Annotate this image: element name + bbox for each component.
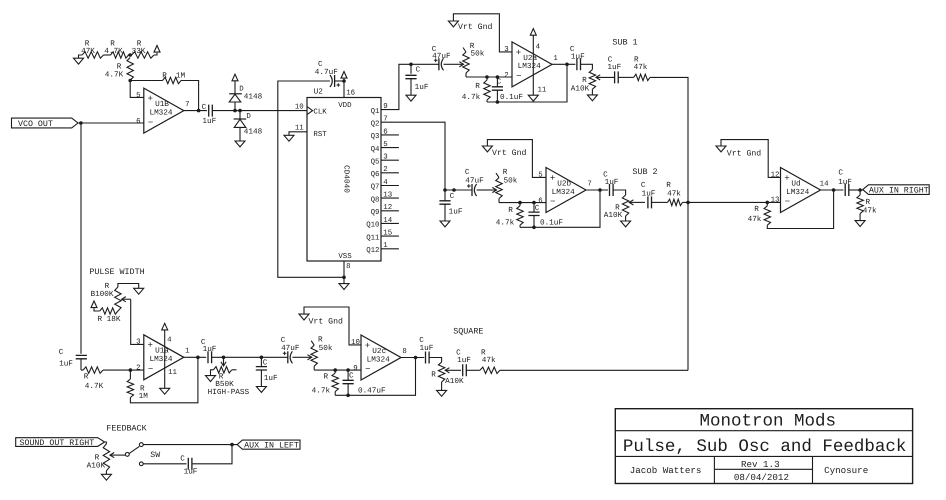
svg-text:R: R	[105, 282, 110, 291]
svg-text:4: 4	[383, 179, 388, 187]
wire U2c output	[401, 357, 424, 359]
node R4.7k top (square)	[333, 368, 337, 372]
svg-text:LM324: LM324	[552, 188, 575, 197]
svg-text:5: 5	[136, 92, 140, 100]
svg-text:R: R	[219, 372, 224, 381]
svg-text:Rev 1.3: Rev 1.3	[741, 459, 780, 470]
ground (feedback pot)	[101, 474, 111, 480]
capacitor C 1uF (SUB2 mix)	[641, 181, 656, 208]
node diode D1	[233, 109, 237, 113]
capacitor C 1uF (pulse width input)	[59, 123, 87, 370]
resistor R 4.7k (square fb)	[312, 370, 339, 395]
node VDD	[342, 79, 346, 83]
resistor R 47k (U2d fb)	[748, 190, 834, 229]
op-amp U1a	[144, 335, 184, 380]
svg-text:+: +	[550, 173, 555, 183]
pin 1 Q12 stub	[366, 242, 399, 255]
svg-text:C: C	[281, 336, 286, 345]
node U1a output	[196, 356, 200, 360]
svg-text:11: 11	[295, 125, 304, 133]
svg-text:PULSE WIDTH: PULSE WIDTH	[89, 267, 144, 277]
svg-text:R: R	[318, 336, 323, 345]
capacitor C 47uF (square)	[261, 336, 300, 363]
potentiometer R 50k (SUB1)	[448, 42, 485, 77]
svg-text:4.7k: 4.7k	[462, 93, 481, 102]
svg-text:10: 10	[295, 103, 304, 111]
resistor R 1M (hysteresis)	[130, 71, 198, 110]
resistor R 47k (SUB1 mix)	[618, 55, 650, 80]
svg-text:47k: 47k	[748, 215, 762, 224]
op-amp U2a	[512, 42, 552, 87]
potentiometer R B100K (pulse width)	[90, 282, 138, 311]
capacitor C 1uF (U1a out)	[201, 338, 217, 363]
svg-text:R: R	[323, 372, 328, 381]
svg-text:4: 4	[536, 44, 541, 52]
ground (output load)	[855, 221, 865, 227]
power VCC arrow (clamp)	[232, 74, 238, 81]
svg-text:R: R	[754, 205, 759, 214]
pin 6 Q3 stub	[371, 128, 399, 141]
ground (RST)	[284, 135, 294, 141]
svg-text:C: C	[603, 170, 608, 179]
svg-text:−: −	[148, 365, 153, 375]
flag AUX IN RIGHT	[863, 185, 929, 196]
node fb-cap junction (SUB2)	[532, 226, 536, 230]
potentiometer R 50k (SUB2)	[481, 168, 518, 203]
svg-text:AUX IN LEFT: AUX IN LEFT	[244, 441, 299, 450]
title block frame	[615, 409, 912, 484]
svg-text:3: 3	[383, 154, 387, 162]
capacitor C 1uF (SUB1 shunt)	[405, 64, 428, 95]
svg-text:A10K: A10K	[604, 211, 623, 220]
svg-text:U1B: U1B	[155, 100, 169, 109]
pin 14 Q10 stub	[366, 217, 399, 230]
pin 4 VCC (U2a)	[530, 29, 540, 65]
ground (pulse width pot)	[134, 288, 144, 294]
svg-text:+: +	[784, 173, 789, 183]
svg-text:HIGH-PASS: HIGH-PASS	[208, 388, 250, 397]
wire U2b output	[586, 189, 608, 191]
wire VCO OUT to U1B pin 6	[78, 122, 144, 124]
svg-text:C: C	[180, 455, 185, 464]
node diode D2	[238, 109, 242, 113]
svg-text:−: −	[516, 72, 521, 82]
svg-text:R 18K: R 18K	[97, 315, 120, 324]
svg-text:R: R	[615, 203, 620, 212]
wire U2a output	[552, 63, 575, 65]
svg-text:U2b: U2b	[557, 179, 571, 188]
pin 9 Q1 wire	[371, 64, 411, 116]
svg-text:11: 11	[537, 87, 546, 95]
svg-text:C: C	[641, 181, 646, 190]
wire decoupling to VSS rail	[278, 81, 344, 277]
node U2d pin 13	[766, 201, 770, 205]
Vrt Gnd (U2b pin 5)	[482, 140, 546, 178]
pin 11 ground (U1a)	[160, 357, 178, 394]
wire U2a feedback loop	[487, 64, 567, 102]
op-amp U2b	[546, 168, 586, 213]
diode D 4148 (clamp to VCC)	[229, 81, 262, 111]
svg-text:LM324: LM324	[149, 108, 172, 117]
wire U1B output	[184, 110, 207, 112]
svg-text:VSS: VSS	[338, 253, 352, 261]
node shunt cap (square in)	[260, 356, 264, 360]
svg-text:47uF: 47uF	[281, 344, 300, 353]
flag SOUND OUT RIGHT	[16, 438, 105, 448]
svg-text:1uF: 1uF	[571, 53, 585, 62]
node U2b output	[598, 188, 602, 192]
svg-text:47k: 47k	[667, 189, 681, 198]
capacitor C 47uF (SUB2)	[445, 168, 484, 196]
node R4.7k top (SUB1)	[485, 75, 489, 79]
svg-text:C: C	[838, 168, 843, 177]
svg-text:R: R	[475, 82, 480, 91]
svg-text:4148: 4148	[244, 127, 263, 136]
pin 4 VCC (U1a)	[162, 323, 172, 357]
svg-text:Pulse, Sub Osc and Feedback: Pulse, Sub Osc and Feedback	[623, 437, 907, 457]
svg-text:D: D	[246, 113, 251, 121]
potentiometer R A10K (SUB2 level)	[604, 195, 645, 221]
ground (SUB1 pot)	[587, 95, 597, 101]
svg-text:1uF: 1uF	[838, 178, 852, 187]
wire U2c feedback loop	[335, 358, 415, 396]
svg-text:50k: 50k	[503, 177, 517, 186]
resistor R 47k (SUB2 mix)	[652, 181, 689, 205]
svg-text:13: 13	[771, 197, 780, 205]
resistor R 1M (U1a fb)	[127, 357, 198, 403]
svg-text:Q10: Q10	[366, 222, 379, 230]
resistor R 4.7K (U1a input)	[81, 367, 144, 391]
svg-text:C: C	[59, 348, 64, 357]
svg-text:Q5: Q5	[371, 158, 380, 166]
pin 16 VDD wire	[338, 81, 355, 110]
svg-text:+: +	[365, 341, 370, 351]
svg-text:1M: 1M	[176, 71, 186, 80]
svg-text:R: R	[666, 181, 671, 190]
node U1B output	[197, 109, 201, 113]
wire U2b pin 6 rail	[499, 202, 546, 204]
capacitor C 1uF (U2d out)	[838, 168, 852, 196]
svg-text:4.7K: 4.7K	[104, 47, 123, 56]
node fb-cap junction (SUB1)	[496, 100, 500, 104]
potentiometer R B50K (HIGH-PASS)	[208, 357, 250, 397]
svg-text:12: 12	[771, 171, 780, 179]
svg-text:8: 8	[402, 348, 406, 356]
ground (square shunt)	[256, 387, 266, 393]
svg-text:Vrt Gnd: Vrt Gnd	[492, 149, 526, 158]
node VSS	[342, 276, 346, 280]
op-amp U2d	[781, 168, 821, 213]
svg-text:CD4040: CD4040	[342, 165, 351, 193]
pin 3 Q5 stub	[371, 154, 399, 167]
node U2d output	[832, 188, 836, 192]
ground (VSS)	[339, 284, 349, 290]
svg-text:4.7K: 4.7K	[105, 71, 124, 80]
ground (bias divider)	[79, 55, 83, 58]
svg-text:Q4: Q4	[371, 146, 380, 154]
Vrt Gnd (U2c pin 10)	[299, 307, 361, 345]
svg-text:VDD: VDD	[338, 102, 352, 110]
node high-pass	[222, 356, 226, 360]
svg-text:C: C	[497, 77, 502, 86]
svg-text:C: C	[419, 336, 424, 345]
svg-text:R: R	[431, 371, 436, 380]
svg-text:1: 1	[383, 242, 388, 250]
svg-text:C: C	[465, 168, 470, 177]
svg-text:50k: 50k	[319, 344, 333, 353]
svg-text:4.7uF: 4.7uF	[315, 68, 338, 77]
svg-text:R: R	[508, 206, 513, 215]
pin 12 Q9 stub	[371, 204, 399, 217]
svg-text:Q7: Q7	[371, 184, 380, 192]
svg-text:D: D	[239, 86, 244, 94]
svg-text:50k: 50k	[470, 50, 484, 59]
svg-text:5: 5	[538, 171, 542, 179]
node summing bus	[686, 201, 690, 205]
resistor R 47k (output load)	[857, 190, 877, 221]
svg-text:Q2: Q2	[371, 121, 380, 129]
op-amp U1B	[144, 88, 184, 133]
svg-text:4.7K: 4.7K	[85, 382, 104, 391]
wire summing bus to U2d pin 13	[688, 201, 781, 203]
pin 11 RST wire	[289, 125, 327, 140]
svg-text:3: 3	[136, 339, 140, 347]
svg-text:LM324: LM324	[367, 355, 390, 364]
svg-text:13: 13	[383, 192, 392, 200]
pin 5 Q4 stub	[371, 141, 399, 154]
svg-text:A10K: A10K	[87, 461, 106, 470]
node SUB2 input	[443, 188, 447, 192]
svg-text:47uF: 47uF	[465, 177, 484, 186]
wire to AUX IN RIGHT	[849, 189, 863, 191]
pin 4 Q7 stub	[371, 179, 399, 192]
Vrt Gnd (U2a pin 3)	[448, 14, 512, 52]
node bias junction	[128, 53, 132, 57]
svg-text:SW: SW	[150, 451, 160, 460]
svg-text:LM324: LM324	[786, 188, 809, 197]
svg-text:10: 10	[351, 339, 360, 347]
pin 7 Q2 wire	[371, 116, 445, 190]
svg-text:R: R	[117, 63, 122, 72]
wire C to AUX IN LEFT	[192, 445, 232, 464]
ground (SUB2 pot)	[621, 221, 631, 227]
wire cap to CLK	[212, 110, 307, 112]
svg-text:0.1uF: 0.1uF	[500, 93, 523, 102]
svg-text:6: 6	[136, 118, 140, 126]
svg-text:Q9: Q9	[371, 209, 380, 217]
power VCC arrow (R18K)	[91, 301, 97, 308]
node fb-cap junction (square)	[346, 394, 350, 398]
ground (square pot)	[437, 390, 447, 396]
svg-text:1uF: 1uF	[607, 63, 621, 72]
svg-text:15: 15	[383, 230, 392, 238]
svg-text:4148: 4148	[244, 93, 263, 102]
capacitor C 1uF (SUB1 out)	[570, 45, 585, 70]
svg-text:−: −	[785, 197, 790, 207]
svg-text:LM324: LM324	[149, 355, 172, 364]
svg-text:Q1: Q1	[371, 108, 380, 116]
pin 8 VSS wire	[338, 253, 352, 277]
svg-text:CLK: CLK	[313, 109, 327, 117]
ground (clamp)	[235, 141, 245, 147]
wire to pot (SUB2)	[613, 190, 626, 195]
capacitor C 1uF (SUB1 mix)	[607, 55, 621, 83]
svg-text:C: C	[202, 103, 207, 112]
power VCC arrow (VDD)	[341, 72, 347, 79]
svg-text:U2c: U2c	[372, 347, 386, 356]
svg-text:C: C	[263, 359, 268, 368]
svg-text:R: R	[84, 372, 89, 381]
svg-text:1: 1	[185, 348, 190, 356]
svg-text:Vrt Gnd: Vrt Gnd	[309, 318, 343, 327]
pin 15 Q11 stub	[366, 230, 399, 243]
svg-text:−: −	[148, 118, 153, 128]
resistor R 4.7k (SUB2 fb)	[496, 203, 523, 228]
svg-text:11: 11	[168, 369, 177, 377]
capacitor C 0.1uF (SUB2 fb)	[528, 203, 563, 228]
svg-text:Q6: Q6	[371, 171, 380, 179]
svg-text:B50K: B50K	[215, 380, 234, 389]
svg-text:+: +	[147, 341, 152, 351]
capacitor C 1uF (SUB2 shunt)	[439, 190, 462, 221]
svg-text:A10K: A10K	[571, 84, 590, 93]
svg-text:R: R	[162, 71, 167, 80]
svg-text:1: 1	[553, 55, 558, 63]
svg-text:Jacob Watters: Jacob Watters	[630, 465, 702, 476]
svg-text:47k: 47k	[863, 206, 877, 215]
svg-text:Q3: Q3	[371, 133, 380, 141]
svg-text:8: 8	[346, 263, 350, 271]
node C0.1uF top (SUB2)	[532, 201, 536, 205]
svg-text:1uF: 1uF	[605, 178, 619, 187]
wire switch to C 1uF	[143, 463, 186, 465]
svg-text:VCO OUT: VCO OUT	[18, 120, 53, 129]
svg-text:AUX IN RIGHT: AUX IN RIGHT	[869, 187, 929, 196]
svg-text:1uF: 1uF	[184, 468, 198, 477]
ground (high-pass pot)	[206, 376, 216, 382]
wire U2d output	[821, 189, 844, 191]
svg-text:7: 7	[383, 116, 387, 124]
svg-text:Monotron Mods: Monotron Mods	[700, 412, 837, 432]
svg-text:08/04/2012: 08/04/2012	[734, 472, 789, 483]
svg-text:Ud: Ud	[791, 179, 800, 188]
svg-text:1uF: 1uF	[202, 117, 216, 126]
svg-text:B100K: B100K	[90, 290, 113, 299]
wire U1a output	[184, 356, 206, 358]
svg-text:Cynosure: Cynosure	[824, 465, 868, 476]
svg-text:−: −	[550, 197, 555, 207]
svg-text:9: 9	[353, 365, 357, 373]
potentiometer R A10K (SUB1 level)	[571, 70, 615, 95]
svg-text:1uF: 1uF	[449, 207, 463, 216]
resistor R 4.7k (SUB1 fb)	[462, 77, 490, 102]
svg-text:R: R	[634, 55, 639, 64]
node U1a pin 2	[129, 368, 133, 372]
svg-text:R: R	[582, 76, 587, 85]
svg-text:14: 14	[383, 217, 392, 225]
svg-text:6: 6	[383, 128, 387, 136]
svg-text:U2a: U2a	[523, 54, 537, 63]
flag VCO OUT	[12, 118, 79, 129]
capacitor C 1uF (SUB2 out)	[603, 170, 619, 196]
svg-text:16: 16	[346, 89, 355, 97]
svg-text:SQUARE: SQUARE	[453, 326, 483, 336]
svg-text:SUB 1: SUB 1	[612, 38, 637, 48]
svg-text:6: 6	[538, 197, 542, 205]
node U2a output	[565, 63, 569, 67]
node SUB1 input	[409, 63, 413, 67]
svg-text:SOUND OUT RIGHT: SOUND OUT RIGHT	[20, 439, 95, 448]
node pin5 bias	[128, 79, 132, 83]
potentiometer R A10K (feedback)	[87, 442, 126, 474]
svg-text:1uF: 1uF	[419, 344, 433, 353]
svg-text:Vrt Gnd: Vrt Gnd	[727, 149, 761, 158]
svg-text:4: 4	[167, 337, 172, 345]
svg-text:C: C	[608, 55, 613, 64]
svg-text:9: 9	[383, 103, 387, 111]
svg-text:7: 7	[185, 101, 189, 109]
diode D 4148 (clamp to ground)	[234, 111, 263, 141]
svg-text:12: 12	[383, 204, 392, 212]
svg-text:+: +	[516, 48, 521, 58]
node U2c output	[414, 356, 418, 360]
svg-text:5: 5	[383, 141, 387, 149]
power VCC arrow (bias)	[154, 46, 160, 53]
svg-text:Q8: Q8	[371, 196, 380, 204]
wire to pot (SUB1)	[581, 64, 593, 69]
svg-text:R: R	[503, 168, 508, 177]
svg-text:2: 2	[136, 365, 140, 373]
wire to high-pass	[212, 356, 262, 358]
svg-text:1M: 1M	[139, 392, 149, 401]
svg-text:R: R	[866, 198, 871, 207]
svg-text:3: 3	[504, 46, 508, 54]
capacitor C 0.1uF (SUB1 fb)	[492, 77, 524, 102]
svg-text:1uF: 1uF	[203, 345, 217, 354]
resistor R 47K	[81, 40, 110, 59]
wire switch to AUX IN LEFT	[143, 444, 237, 446]
IC U2 CD4040 body	[307, 88, 381, 262]
node C0.47uF top (square)	[346, 368, 350, 372]
Vrt Gnd (U2d pin 12)	[716, 140, 781, 178]
svg-text:2: 2	[504, 72, 508, 80]
potentiometer R 50k (square)	[296, 336, 333, 370]
svg-text:47k: 47k	[634, 63, 648, 72]
pin 11 ground (U2a)	[528, 64, 547, 101]
capacitor C 1uF (feedback)	[180, 455, 198, 477]
node AUX IN LEFT	[230, 443, 234, 447]
pin 10 CLK	[295, 103, 327, 116]
svg-text:4.7k: 4.7k	[496, 219, 515, 228]
wire SUB1 wiper	[612, 76, 613, 78]
resistor R 4.7K (vertical)	[105, 58, 134, 81]
node AUX IN RIGHT	[858, 188, 862, 192]
svg-text:4.7k: 4.7k	[312, 386, 331, 395]
wire to U1B pin 5	[130, 81, 144, 98]
svg-text:Q12: Q12	[366, 247, 379, 255]
svg-text:33K: 33K	[132, 47, 146, 56]
capacitor C 1uF (clock coupling)	[202, 103, 217, 126]
svg-text:1uF: 1uF	[457, 356, 471, 365]
svg-text:SUB 2: SUB 2	[632, 167, 657, 177]
svg-text:Q11: Q11	[366, 234, 380, 242]
capacitor C 47uF (SUB1)	[411, 45, 451, 70]
capacitor C 1uF (square out)	[419, 336, 434, 364]
switch SW	[125, 443, 160, 466]
svg-text:C: C	[416, 65, 421, 74]
ground (SUB1 shunt)	[406, 95, 416, 101]
resistor R 47k (square mix)	[466, 348, 688, 373]
